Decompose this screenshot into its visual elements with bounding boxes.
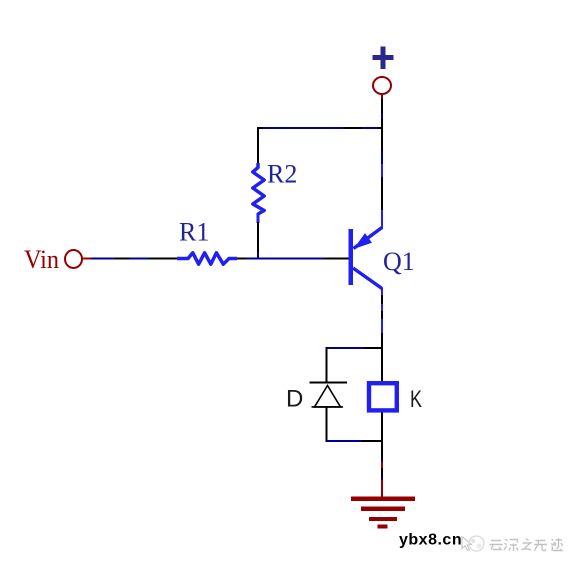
svg-text:D: D	[286, 386, 303, 413]
svg-text:R1: R1	[179, 218, 209, 247]
svg-text:ybx8.cn: ybx8.cn	[399, 532, 462, 549]
svg-text:Vin: Vin	[24, 245, 59, 274]
svg-text:R2: R2	[267, 160, 297, 189]
svg-text:Q1: Q1	[383, 247, 415, 276]
svg-text:K: K	[410, 386, 422, 413]
